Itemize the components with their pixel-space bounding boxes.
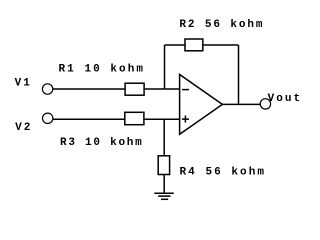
op-amp plus sign (182, 118, 189, 120)
wire R4 to ground (163, 175, 165, 194)
resistor R3 (125, 112, 144, 124)
resistor R2 (185, 39, 203, 51)
svg-text:R4 56 kohm: R4 56 kohm (180, 167, 267, 179)
svg-text:R3 10 kohm: R3 10 kohm (60, 137, 144, 149)
feedback wire top right segment (203, 44, 239, 46)
op-amp minus sign (182, 89, 189, 91)
ground (154, 192, 174, 194)
svg-text:R2 56 kohm: R2 56 kohm (179, 19, 264, 31)
wire R1 to op-amp inverting input (144, 88, 180, 90)
wire node to R4 (163, 119, 165, 156)
wire V2 to R3 (53, 118, 125, 120)
terminal Vout (260, 99, 270, 109)
svg-text:V2: V2 (15, 122, 32, 134)
resistor R1 (125, 83, 144, 95)
wire R3 to op-amp non-inverting input (144, 118, 180, 120)
resistor R4 (158, 156, 169, 175)
feedback wire right vertical (238, 45, 240, 104)
op-amp U1 (180, 75, 223, 135)
terminal V1 (42, 84, 52, 94)
svg-text:V1: V1 (15, 78, 32, 90)
feedback wire top left segment (165, 44, 186, 46)
wire V1 to R1 (53, 88, 125, 90)
svg-text:Vout: Vout (268, 93, 303, 105)
output wire (222, 103, 260, 105)
svg-text:R1 10 kohm: R1 10 kohm (59, 64, 146, 76)
terminal V2 (43, 113, 53, 123)
feedback wire left vertical (164, 45, 166, 89)
